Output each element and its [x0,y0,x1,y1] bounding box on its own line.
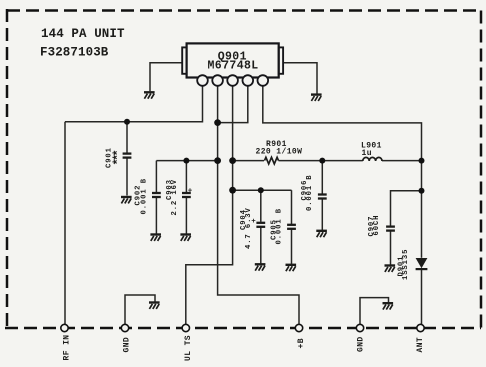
wire C904 stem [260,190,262,222]
node C901 tap [124,119,130,125]
wire output to diode [421,161,423,258]
svg-text:M67748L: M67748L [208,60,259,73]
node C907 tap [419,188,425,194]
svg-text:144 PA UNIT: 144 PA UNIT [41,27,125,41]
wire pin3 to UL TS [186,86,233,324]
terminal +B [295,324,302,331]
svg-text:0.001 B: 0.001 B [276,208,284,245]
module pin 3 [227,75,238,86]
node C904 tap [258,187,264,193]
wire rail1 right segment a [233,160,264,162]
svg-text:4.7 6.3V: 4.7 6.3V [245,207,253,249]
ground C907 [385,266,396,272]
wire C902 stem [155,161,157,193]
module pin 1 [197,75,208,86]
terminal ANT [417,324,424,331]
terminal GND right [356,324,363,331]
terminal RF IN [61,324,68,331]
capacitor C906 [318,195,327,199]
wire rail1 right segment b [279,160,363,162]
node rail2 at pin3 [229,187,236,194]
module pin 5 [258,75,269,86]
wire rail2 bias [233,189,292,191]
wire RF IN vertical [64,122,66,324]
ground C903 [180,235,191,241]
wire GND1 hook [125,295,155,324]
node pin2/pin4 junction [214,119,221,126]
ground module left [144,92,155,98]
wire diode to ANT [421,269,423,324]
wire pin5 to output [263,86,422,161]
diode D901 [416,258,428,270]
ground module right [311,95,322,101]
capacitor C902 [152,193,161,197]
svg-text:2.2 16V: 2.2 16V [171,179,179,216]
node rail1 right at pin3 [229,157,236,164]
inductor L901 [363,157,382,161]
svg-text:GND: GND [357,336,366,352]
module pin 2 [212,75,223,86]
wire GND2 hook [360,298,389,324]
terminal GND left [121,324,128,331]
terminal UL TS [182,324,189,331]
ground C905 [286,265,297,271]
junction dots [124,119,425,194]
wire module left ground [150,63,182,92]
wire pin2 to +B [218,86,299,324]
svg-text:0.001 B: 0.001 B [141,178,149,215]
capacitor C903 electrolytic [182,193,191,197]
ground C902 [150,235,161,241]
ground C906 [316,231,327,237]
wire rail1 right segment c [382,160,422,162]
ground GND1 hook [149,303,160,309]
module pin 4 [243,75,254,86]
svg-text:RF IN: RF IN [63,334,72,360]
node C906 tap [319,158,325,164]
svg-text:UL TS: UL TS [184,335,193,361]
hybrid module Q901 M67748L body [182,43,283,77]
wire pin4 to +B rail [218,86,248,123]
capacitor C904 electrolytic [256,223,265,227]
capacitor C907 [386,227,395,231]
wire module right ground [283,63,317,94]
svg-text:F3287103B: F3287103B [40,46,109,60]
capacitor C901 [123,154,132,158]
wire C907 branch [391,191,422,227]
svg-text:GND: GND [123,337,132,353]
svg-text:0.001 B: 0.001 B [306,175,314,212]
wire input rail pin1 [65,86,203,122]
wire C903 stem [185,161,187,193]
capacitor C905 [287,225,296,229]
wire C901 stem [126,122,128,153]
svg-text:1SS135: 1SS135 [402,249,410,280]
ground GND2 hook [383,303,394,309]
svg-text:+: + [188,187,193,195]
wire rail1 left [156,160,217,162]
node C903 tap [183,158,189,164]
node rail1 left at pin2 [214,157,221,164]
svg-text:+B: +B [297,338,306,348]
wire C905 stem [291,190,293,224]
wire C906 stem [321,161,323,195]
svg-text:***: *** [112,150,126,165]
svg-text:1u: 1u [362,149,372,158]
svg-text:60CH: 60CH [373,215,381,236]
ground C901 [121,197,132,203]
ground C904 [255,264,266,270]
svg-text:220 1/10W: 220 1/10W [256,148,303,157]
node output junction [419,158,425,164]
resistor R901 [265,157,279,164]
svg-text:ANT: ANT [416,337,425,353]
